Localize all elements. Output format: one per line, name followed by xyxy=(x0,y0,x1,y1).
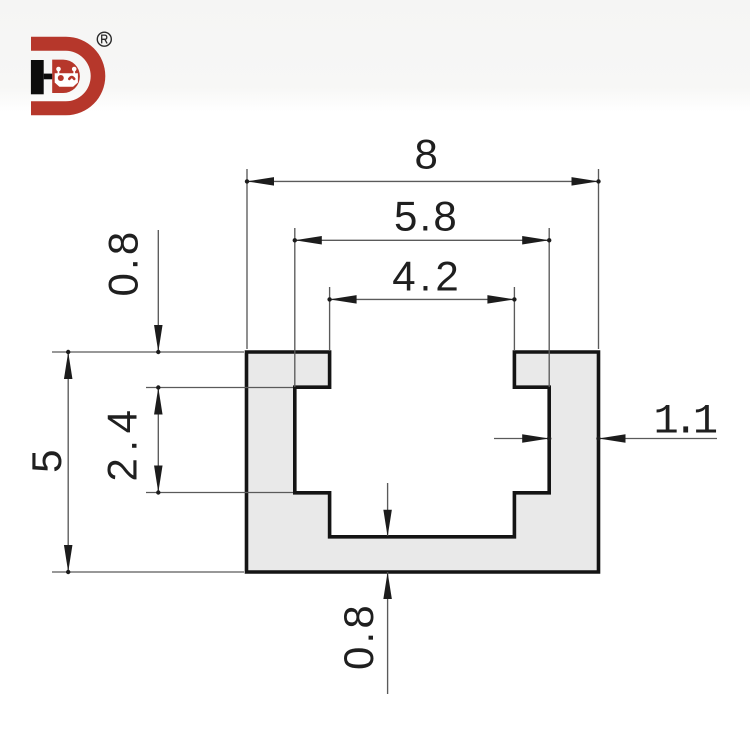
svg-text:5: 5 xyxy=(23,450,70,473)
svg-text:1.1: 1.1 xyxy=(653,398,716,446)
svg-text:5.8: 5.8 xyxy=(394,193,459,240)
svg-text:8: 8 xyxy=(415,131,438,178)
svg-text:4.2: 4.2 xyxy=(392,253,462,300)
svg-text:0.8: 0.8 xyxy=(100,229,147,297)
svg-text:0.8: 0.8 xyxy=(335,602,382,670)
svg-text:2.4: 2.4 xyxy=(99,404,146,482)
